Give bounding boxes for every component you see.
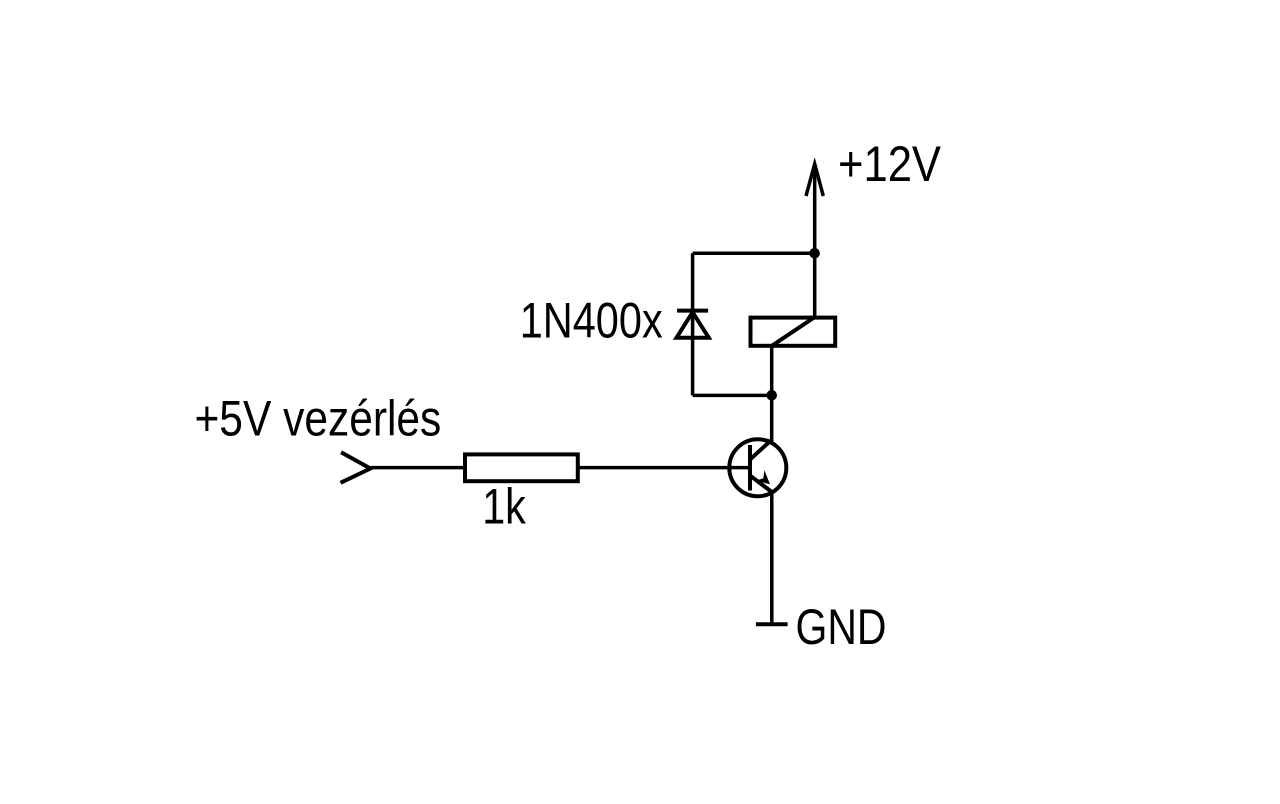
resistor R1 (1k) [465, 454, 578, 481]
input terminal chevron [341, 452, 371, 483]
node: junction on +12V line [809, 248, 820, 259]
wire: top horizontal from +12V line to diode branch [693, 252, 815, 256]
wire: vertical down through diode to bottom corner [691, 253, 695, 395]
diode D1 (1N400x), cathode up [677, 311, 709, 338]
relay K1 coil [751, 318, 836, 346]
svg-text:+5V vezérlés: +5V vezérlés [195, 390, 442, 446]
ground [756, 622, 788, 626]
svg-text:1N400x: 1N400x [520, 293, 663, 349]
node: junction below relay [766, 390, 777, 401]
svg-text:1k: 1k [482, 479, 526, 535]
wire: emitter down to ground [770, 491, 774, 624]
wire: input to resistor [370, 466, 465, 470]
wire: resistor to transistor base [578, 466, 750, 470]
wire: relay bottom to junction node [770, 346, 774, 396]
power +12V arrow [806, 164, 823, 318]
transistor emitter arrowhead [755, 470, 770, 484]
wire: junction down to transistor collector [770, 395, 774, 440]
transistor Q1 (NPN) [729, 439, 786, 496]
wire: bottom horizontal from diode to node below relay [693, 394, 772, 398]
svg-text:GND: GND [796, 599, 887, 655]
svg-text:+12V: +12V [838, 136, 942, 192]
